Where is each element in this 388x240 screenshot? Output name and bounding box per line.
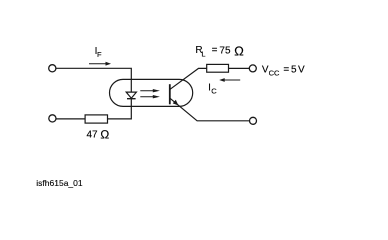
- resistor 47 Ohm: [85, 115, 107, 123]
- wire RL to Vcc terminal: [229, 67, 250, 69]
- svg-text:5: 5: [291, 65, 297, 76]
- wire emitter: [170, 98, 250, 120]
- terminal bottom-left: [49, 115, 56, 122]
- diode LED: [126, 92, 136, 98]
- light arrow 1: [140, 89, 160, 92]
- svg-text:C: C: [211, 86, 217, 95]
- arrow IC: [219, 78, 240, 82]
- wire anode top: [56, 68, 131, 92]
- arrow IF: [89, 62, 111, 66]
- terminal Vcc: [249, 65, 256, 72]
- transistor emitter arrowhead: [173, 100, 179, 106]
- resistor RL: [207, 64, 229, 72]
- svg-text:75: 75: [219, 45, 231, 56]
- svg-text:47: 47: [87, 130, 99, 141]
- svg-text:V: V: [298, 65, 305, 76]
- wire resistor to LED cathode: [108, 99, 132, 119]
- svg-text:F: F: [97, 50, 102, 59]
- svg-text:Ω: Ω: [234, 43, 244, 58]
- optocoupler body U1: [110, 79, 193, 106]
- svg-text:=: =: [212, 45, 218, 56]
- transistor Q1 base bar: [169, 84, 171, 104]
- wire collector: [170, 68, 207, 89]
- terminal bottom-right: [250, 117, 257, 124]
- LED cathode bar: [127, 98, 136, 100]
- svg-text:CC: CC: [269, 69, 280, 78]
- svg-text:=: =: [283, 65, 289, 76]
- svg-text:isfh615a_01: isfh615a_01: [36, 178, 83, 188]
- svg-text:L: L: [201, 49, 205, 58]
- light arrow 2: [140, 95, 160, 98]
- wire cathode bottom-left: [56, 118, 85, 120]
- svg-text:Ω: Ω: [100, 128, 109, 142]
- terminal top-left: [49, 65, 56, 72]
